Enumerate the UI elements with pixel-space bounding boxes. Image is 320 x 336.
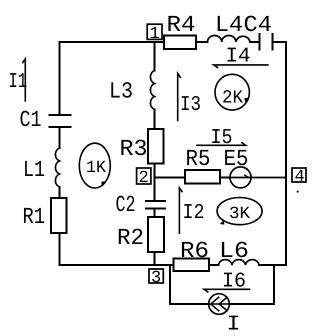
wire C1 to L1 — [59, 127, 61, 148]
wire through E5 — [230, 177, 286, 179]
current arrow I3 — [178, 74, 201, 121]
svg-text:I6: I6 — [222, 271, 246, 294]
node 4 — [292, 168, 306, 187]
svg-text:R3: R3 — [120, 136, 148, 162]
inductor L4 — [208, 36, 251, 42]
wire loop bottom right — [229, 303, 274, 305]
svg-text:R5: R5 — [186, 146, 211, 172]
loop 1K — [79, 143, 110, 188]
current arrow I2 — [179, 188, 204, 234]
resistor R4 — [164, 36, 196, 50]
E5 arrowhead — [245, 175, 248, 177]
resistor R5 — [185, 170, 220, 184]
node 3 — [149, 269, 163, 288]
wire L1 to R1 — [59, 187, 61, 198]
inductor L1 — [55, 148, 59, 187]
svg-text:C1: C1 — [20, 107, 42, 133]
svg-text:R1: R1 — [23, 204, 46, 230]
svg-text:C2: C2 — [116, 192, 136, 218]
wire loop right vertical — [273, 265, 275, 304]
current arrow I5 — [197, 127, 246, 150]
wire left vertical top — [59, 42, 61, 115]
stray dot near node 4 — [297, 191, 299, 193]
svg-text:4: 4 — [295, 168, 305, 187]
svg-text:E5: E5 — [224, 146, 249, 172]
capacitor C4 — [260, 34, 273, 50]
svg-text:C4: C4 — [244, 12, 273, 38]
wire node2 to R5 — [155, 177, 186, 179]
resistor R1 — [51, 198, 67, 233]
svg-text:L1: L1 — [23, 157, 45, 183]
wire L3 to R3 — [154, 110, 156, 130]
resistor R6 — [174, 259, 210, 272]
wire loop left vertical — [169, 265, 171, 304]
node 1 junction column top — [154, 42, 156, 71]
wire C4 to right corner — [273, 41, 287, 43]
svg-text:I1: I1 — [9, 71, 28, 94]
capacitor C2 — [146, 201, 165, 209]
loop 3K — [217, 198, 262, 225]
wire R2 to bottom — [154, 252, 156, 265]
wire R4 to L4 — [196, 41, 208, 43]
svg-text:I3: I3 — [180, 94, 201, 117]
svg-text:3: 3 — [151, 269, 161, 288]
wire L4 to C4 — [250, 41, 260, 43]
svg-text:R2: R2 — [117, 225, 144, 251]
wire bottom horizontal — [60, 264, 174, 266]
wire loop bottom left — [170, 303, 209, 305]
svg-text:R4: R4 — [167, 12, 196, 38]
current arrow I6 — [204, 271, 250, 294]
svg-text:I: I — [227, 314, 241, 336]
current arrow I1 — [9, 59, 28, 101]
wire top left horizontal — [60, 41, 165, 43]
capacitor C1 — [50, 115, 71, 127]
loop 2K — [215, 74, 250, 110]
node 1 — [147, 24, 162, 44]
svg-text:R6: R6 — [180, 238, 209, 264]
current arrow I4 — [214, 46, 268, 69]
current source arrows — [209, 297, 230, 310]
wire right vertical — [285, 42, 287, 265]
resistor R3 — [148, 129, 164, 164]
wire L6 to right wire — [259, 264, 286, 266]
svg-text:L4: L4 — [215, 12, 243, 38]
svg-text:L3: L3 — [109, 79, 133, 105]
wire C2 to R2 — [154, 209, 156, 218]
node 2 — [137, 168, 151, 188]
svg-text:I4: I4 — [226, 46, 251, 69]
wire R6 to L6 — [209, 264, 219, 266]
svg-text:I2: I2 — [183, 202, 205, 225]
inductor L6 — [219, 260, 260, 265]
current source I — [209, 294, 230, 315]
svg-text:L6: L6 — [219, 238, 249, 264]
svg-text:3K: 3K — [229, 205, 251, 224]
wire R3 to C2 through node 2 — [154, 164, 156, 202]
svg-text:2K: 2K — [222, 88, 244, 109]
source E5 — [230, 167, 251, 188]
svg-text:2: 2 — [139, 169, 149, 188]
svg-text:1: 1 — [150, 25, 160, 44]
inductor L3 — [150, 71, 154, 110]
svg-text:1K: 1K — [86, 159, 107, 178]
resistor R2 — [148, 217, 164, 252]
wire R1 to bottom corner — [59, 233, 61, 265]
wire R5 to E5 — [220, 177, 230, 179]
